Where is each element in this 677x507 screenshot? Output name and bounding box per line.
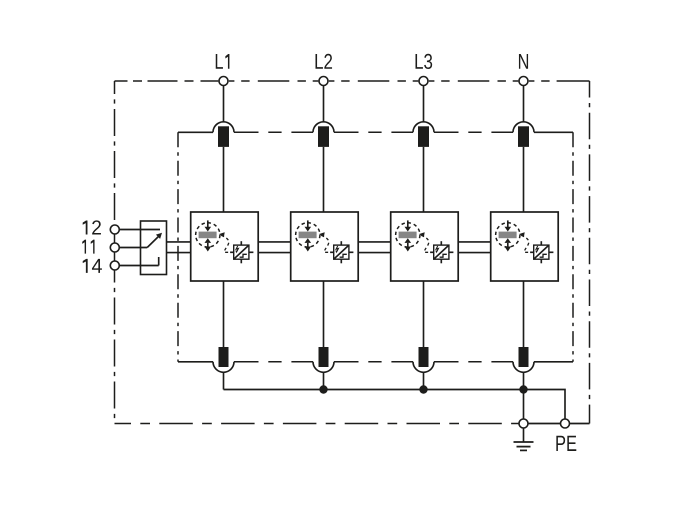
junction node L3/PE bus [419,385,427,393]
wire bus to earth terminal [523,390,525,420]
trigger device L2: bottom stub [340,259,342,263]
plug-in contact bottom L1: blade [219,347,229,367]
enclosure border top segment 4 (dash-dot) [429,80,519,82]
spark gap L3: lower double arrow [405,238,412,251]
plug-in contact top L1: arc [213,122,234,133]
wire bottom contact L3 to PE bus [423,372,425,389]
module boundary right edge (dash-dot) [572,132,574,361]
wire PE terminal to enclosure corner [569,423,589,425]
trigger device L3: surge arrow glyph [435,246,438,253]
wire L1 terminal to top plug contact [223,86,225,122]
wire L2 terminal to top plug contact [323,86,325,122]
plug-in contact top L3: arc [413,122,434,133]
SPD module box 4 (path N) [491,212,559,281]
linkage double line segment 1 [167,242,191,253]
plug-in contact bottom N: blade [519,347,529,367]
PE terminal circle [561,419,570,428]
terminal L2 circle [319,77,328,86]
earth terminal circle [519,419,528,428]
spark gap symbol N: dashed circle [496,223,520,247]
linkage double line segment 2 [258,242,291,253]
junction node L2/PE bus [319,385,327,393]
module boundary bottom-right segment [534,361,573,363]
module boundary top dashed segment 2 [334,131,413,133]
trigger line L1: arrowhead at spark gap [219,232,225,237]
trigger device L1: surge arrow glyph [235,246,238,253]
wire top contact to SPD module L1 [223,147,225,212]
module boundary left edge (dash-dot) [177,132,179,361]
trigger device L1: step glyph [240,254,247,257]
trigger device L1: top stub [240,241,242,245]
terminal 11 circle [110,243,119,252]
trigger device L2: diagonal [334,245,349,259]
terminal L3 label [415,54,432,69]
trigger device L3: step glyph [440,254,447,257]
wire terminal 14 to contact [119,265,159,267]
wire SPD module N to bottom contact [523,281,525,347]
module boundary bottom dashed segment 3 [434,361,513,363]
spark gap symbol L1: dashed circle [196,223,220,247]
wire SPD module L1 to bottom contact [223,281,225,347]
trigger device L2: step glyph [340,254,347,257]
module boundary bottom-left segment [178,361,213,363]
terminal 11 label [82,240,94,254]
trigger device L2: top stub [340,241,342,245]
wire earth terminal to PE terminal [528,423,561,425]
trigger device L2: left stub [330,251,334,253]
trigger device N: right stub [549,251,554,253]
trigger device N: bottom stub [540,259,542,263]
trigger device L1: right stub [249,251,254,253]
plug-in contact bottom L2: blade [319,347,329,367]
trigger device N: top stub [540,241,542,245]
trigger device L1: square [234,245,249,259]
wire top contact to SPD module L2 [323,147,325,212]
wire N terminal to top plug contact [523,86,525,122]
enclosure border right (dash-dot) [589,81,591,424]
trigger device L2: right stub [349,251,354,253]
spark gap N: electrode bar [499,232,517,239]
plug-in contact top N: arc [513,122,534,133]
enclosure border left (dash-dot) [114,81,116,424]
terminal N circle [519,77,528,86]
spark gap L1: upper arrow [205,220,212,231]
module boundary top dashed segment 1 [234,131,313,133]
trigger line L3: dashed connection [421,235,430,252]
PE bus wire [224,390,566,420]
trigger device L3: diagonal [434,245,449,259]
changeover switch moving contact [147,233,162,248]
module boundary bottom dashed segment 1 [234,361,313,363]
wire L3 terminal to top plug contact [423,86,425,122]
terminal L3 circle [419,77,428,86]
terminal 14 label [83,259,102,273]
trigger device L3: bottom stub [440,259,442,263]
spark gap L2: lower double arrow [305,238,312,251]
trigger device N: surge arrow glyph [535,246,538,253]
terminal 14 circle [110,261,119,270]
trigger device L2: surge arrow glyph [335,246,338,253]
plug-in contact bottom L3: arc [413,362,434,373]
wire bottom contact L2 to PE bus [323,372,325,389]
module boundary top dashed segment 3 [434,131,513,133]
trigger device L1: left stub [230,251,234,253]
plug-in contact top L3: blade [418,126,429,147]
module boundary top-right segment [534,131,573,133]
terminal N label [519,54,528,69]
plug-in contact bottom L3: blade [419,347,429,367]
enclosure border top segment 3 (dash-dot) [329,80,419,82]
plug-in contact bottom L2: arc [313,362,334,373]
spark gap L3: electrode bar [399,232,417,239]
changeover switch box [141,221,167,275]
enclosure border top-left segment (dash-dot) [115,80,219,82]
spark gap L1: lower double arrow [205,238,212,251]
plug-in contact bottom L1: arc [213,362,234,373]
trigger device N: square [534,245,549,259]
trigger device N: diagonal [534,245,549,259]
trigger device L1: diagonal [234,245,249,259]
wire bottom contact L1 to PE bus [223,372,225,389]
module boundary top-left segment [178,131,213,133]
trigger device N: step glyph [540,254,547,257]
terminal 12 label [83,220,101,234]
SPD module box 1 (path L1) [191,212,259,281]
plug-in contact top L2: arc [313,122,334,133]
trigger device N: left stub [530,251,534,253]
trigger line N: arrowhead at spark gap [519,232,525,237]
trigger line L1: dashed connection [221,235,230,252]
trigger device L3: right stub [449,251,454,253]
wire SPD module L3 to bottom contact [423,281,425,347]
changeover switch contact 14 hook [158,257,160,266]
enclosure border bottom (dash-dot) [115,423,519,425]
wire top contact to SPD module N [523,147,525,212]
spark gap L1: electrode bar [199,232,217,239]
terminal L1 label [216,54,230,69]
plug-in contact top N: blade [518,126,529,147]
terminal L2 label [315,54,332,69]
linkage double line segment 3 [358,242,391,253]
trigger line L2: arrowhead at spark gap [319,232,325,237]
plug-in contact top L2: blade [318,126,329,147]
module boundary bottom dashed segment 2 [334,361,413,363]
SPD module box 2 (path L2) [291,212,359,281]
enclosure border top segment 2 (dash-dot) [229,80,318,82]
wire terminal 12 to contact [119,229,160,231]
wire SPD module L2 to bottom contact [323,281,325,347]
trigger device L2: square [334,245,349,259]
spark gap symbol L3: dashed circle [396,223,420,247]
spark gap N: lower double arrow [505,238,512,251]
spark gap L2: upper arrow [305,220,312,231]
SPD module box 3 (path L3) [391,212,459,281]
spark gap N: upper arrow [505,220,512,231]
trigger line L2: dashed connection [321,235,330,252]
spark gap L2: electrode bar [299,232,317,239]
ground symbol [514,428,534,451]
terminal L1 circle [219,77,228,86]
trigger device L3: top stub [440,241,442,245]
terminal 12 circle [110,225,119,234]
plug-in contact bottom N: arc [513,362,534,373]
trigger device L1: bottom stub [240,259,242,263]
plug-in contact top L1: blade [218,126,229,147]
trigger line N: dashed connection [521,235,530,252]
spark gap L3: upper arrow [405,220,412,231]
wire top contact to SPD module L3 [423,147,425,212]
trigger device L3: left stub [430,251,434,253]
PE label [556,436,576,451]
trigger line L3: arrowhead at spark gap [419,232,425,237]
linkage double line segment 4 [458,242,491,253]
wire bottom contact N to PE bus [523,372,525,389]
enclosure border top-right segment (dash-dot) [529,80,590,82]
junction node N/PE bus [519,385,527,393]
wire terminal 11 to contact [119,247,147,249]
spark gap symbol L2: dashed circle [296,223,320,247]
trigger device L3: square [434,245,449,259]
